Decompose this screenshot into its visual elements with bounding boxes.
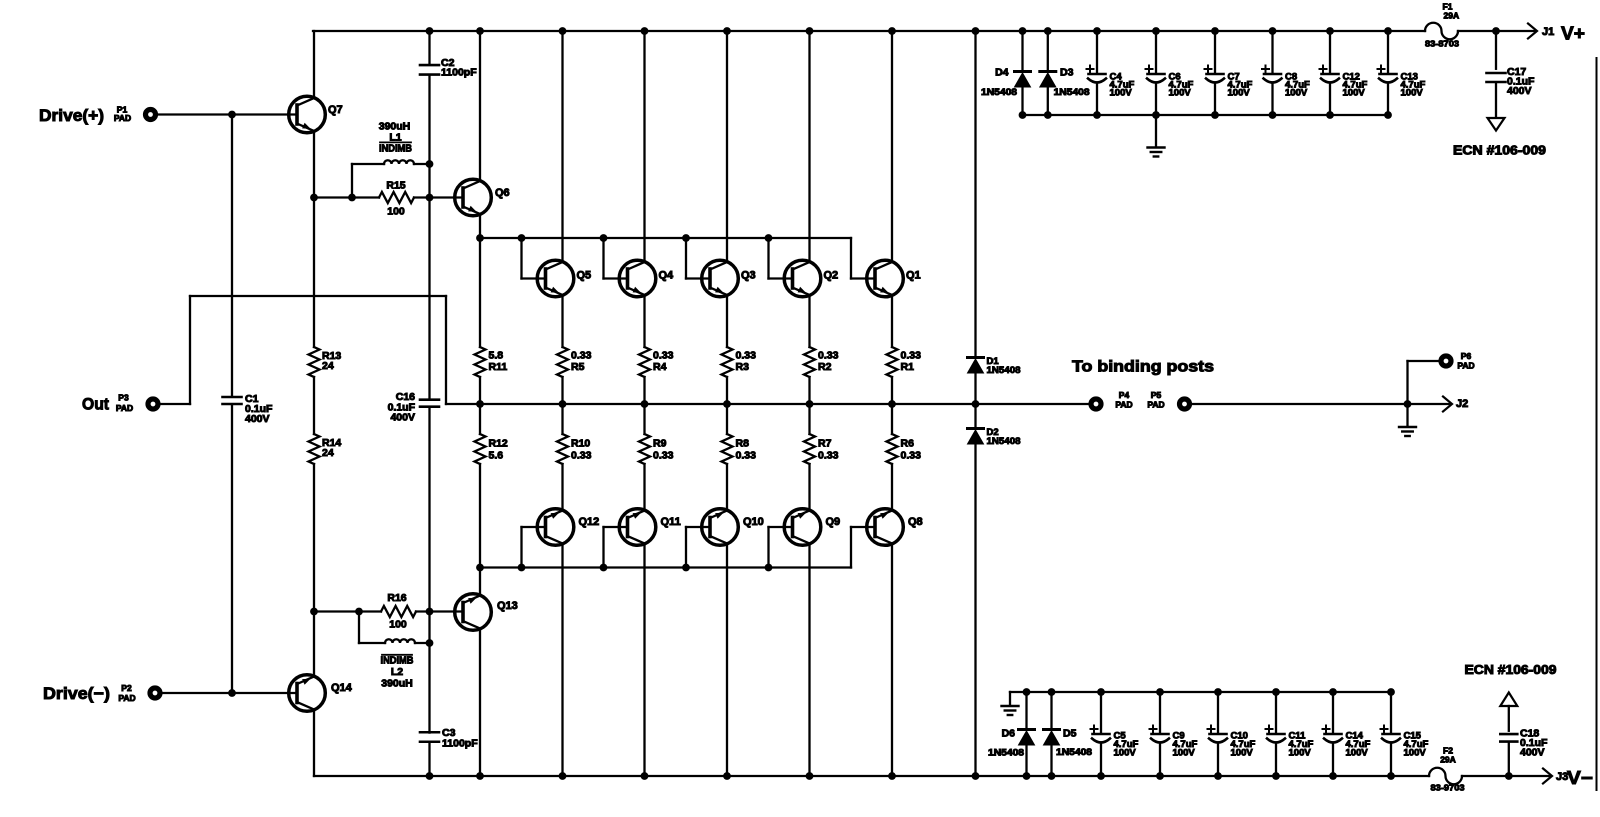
svg-text:0.33: 0.33 <box>653 350 674 362</box>
svg-text:100V: 100V <box>1343 88 1366 99</box>
svg-text:0.33: 0.33 <box>818 450 839 462</box>
svg-text:ECN #106-009: ECN #106-009 <box>1465 663 1557 677</box>
svg-text:PAD: PAD <box>1147 400 1164 410</box>
svg-text:Q13: Q13 <box>497 600 518 612</box>
svg-text:Out: Out <box>82 395 109 414</box>
svg-text:R2: R2 <box>818 361 832 373</box>
svg-text:1N5408: 1N5408 <box>988 748 1024 759</box>
svg-text:24: 24 <box>322 360 334 372</box>
svg-text:400V: 400V <box>390 412 415 424</box>
svg-text:400V: 400V <box>1520 747 1545 759</box>
svg-text:1N5408: 1N5408 <box>1054 87 1090 98</box>
svg-text:D6: D6 <box>1002 728 1016 740</box>
svg-text:R3: R3 <box>736 361 750 373</box>
svg-text:Q12: Q12 <box>579 516 600 528</box>
svg-text:29A: 29A <box>1444 11 1460 21</box>
svg-text:1N5408: 1N5408 <box>987 365 1021 376</box>
svg-text:R6: R6 <box>901 438 915 450</box>
svg-text:R12: R12 <box>489 438 508 450</box>
svg-text:R15: R15 <box>386 180 405 192</box>
svg-text:Q5: Q5 <box>577 270 592 282</box>
svg-text:1100pF: 1100pF <box>441 67 477 79</box>
svg-text:5.8: 5.8 <box>489 350 504 362</box>
svg-text:V−: V− <box>1567 767 1593 788</box>
svg-text:Q11: Q11 <box>661 516 681 528</box>
svg-text:P4: P4 <box>1119 390 1130 400</box>
svg-text:Q1: Q1 <box>906 270 921 282</box>
svg-text:100V: 100V <box>1173 748 1196 759</box>
svg-text:P3: P3 <box>118 393 129 403</box>
svg-text:0.33: 0.33 <box>901 450 922 462</box>
svg-text:R8: R8 <box>736 438 750 450</box>
svg-text:R16: R16 <box>387 592 406 604</box>
svg-text:5.6: 5.6 <box>489 450 504 462</box>
svg-text:R5: R5 <box>571 361 585 373</box>
svg-text:R11: R11 <box>489 361 508 373</box>
svg-text:1100pF: 1100pF <box>442 738 478 750</box>
svg-text:100V: 100V <box>1110 88 1133 99</box>
svg-text:D5: D5 <box>1063 728 1077 740</box>
svg-text:100V: 100V <box>1231 748 1254 759</box>
svg-text:0.33: 0.33 <box>571 350 592 362</box>
svg-text:L2: L2 <box>391 666 403 678</box>
svg-text:Q7: Q7 <box>328 104 343 116</box>
svg-text:INDIMB: INDIMB <box>379 143 412 155</box>
svg-text:0.33: 0.33 <box>736 350 757 362</box>
svg-text:P2: P2 <box>121 683 132 693</box>
svg-text:0.33: 0.33 <box>653 450 674 462</box>
svg-text:24: 24 <box>322 447 334 459</box>
svg-text:1N5408: 1N5408 <box>1056 747 1092 758</box>
svg-text:P6: P6 <box>1461 351 1472 361</box>
svg-text:0.33: 0.33 <box>571 450 592 462</box>
svg-text:R7: R7 <box>818 438 832 450</box>
svg-text:Q8: Q8 <box>908 516 923 528</box>
svg-text:R1: R1 <box>901 361 915 373</box>
svg-text:Q3: Q3 <box>741 270 756 282</box>
svg-text:100V: 100V <box>1401 88 1424 99</box>
svg-text:Q9: Q9 <box>826 516 841 528</box>
svg-text:400V: 400V <box>1507 85 1532 97</box>
svg-text:PAD: PAD <box>118 693 135 703</box>
svg-text:PAD: PAD <box>116 403 133 413</box>
svg-text:Q14: Q14 <box>331 682 353 694</box>
svg-text:100V: 100V <box>1114 748 1137 759</box>
svg-text:Q10: Q10 <box>743 516 764 528</box>
svg-text:1N5408: 1N5408 <box>981 87 1017 98</box>
svg-text:Q2: Q2 <box>824 270 839 282</box>
svg-text:R9: R9 <box>653 438 667 450</box>
svg-text:1N5408: 1N5408 <box>987 436 1021 447</box>
svg-text:100V: 100V <box>1404 748 1427 759</box>
svg-text:390uH: 390uH <box>381 678 413 690</box>
svg-text:100V: 100V <box>1289 748 1312 759</box>
svg-text:100V: 100V <box>1346 748 1369 759</box>
svg-text:D3: D3 <box>1060 67 1074 79</box>
svg-text:Q6: Q6 <box>495 187 510 199</box>
svg-text:PAD: PAD <box>1115 400 1132 410</box>
svg-text:83-9703: 83-9703 <box>1431 783 1465 793</box>
svg-text:P5: P5 <box>1151 390 1162 400</box>
svg-text:R10: R10 <box>571 438 590 450</box>
svg-text:D4: D4 <box>995 67 1009 79</box>
svg-text:0.33: 0.33 <box>818 350 839 362</box>
svg-text:29A: 29A <box>1440 755 1456 765</box>
svg-text:Q4: Q4 <box>659 270 675 282</box>
svg-text:0.33: 0.33 <box>736 450 757 462</box>
svg-text:J2: J2 <box>1456 398 1468 410</box>
svg-text:R4: R4 <box>653 361 667 373</box>
svg-text:100V: 100V <box>1169 88 1192 99</box>
svg-text:INDIMB: INDIMB <box>381 654 414 666</box>
svg-text:100V: 100V <box>1228 88 1251 99</box>
svg-text:83-8703: 83-8703 <box>1425 39 1459 49</box>
svg-text:Drive(−): Drive(−) <box>43 684 110 703</box>
svg-text:To binding posts: To binding posts <box>1072 359 1214 376</box>
svg-text:PAD: PAD <box>1457 361 1474 371</box>
svg-text:Drive(+): Drive(+) <box>39 106 104 125</box>
svg-text:ECN #106-009: ECN #106-009 <box>1453 143 1546 157</box>
svg-text:V+: V+ <box>1561 23 1585 44</box>
svg-text:100: 100 <box>389 619 407 631</box>
svg-text:100V: 100V <box>1285 88 1308 99</box>
svg-text:100: 100 <box>387 206 405 218</box>
svg-text:0.33: 0.33 <box>901 350 922 362</box>
svg-text:PAD: PAD <box>114 113 131 123</box>
svg-text:400V: 400V <box>245 413 270 425</box>
svg-text:J1: J1 <box>1542 26 1554 38</box>
